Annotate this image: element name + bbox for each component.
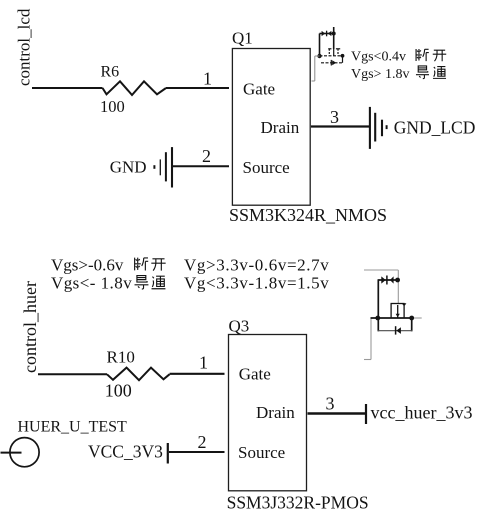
svg-text:R10: R10 bbox=[107, 348, 135, 367]
transistor Q3 body bbox=[229, 335, 307, 491]
power GND_LCD battery symbol bbox=[370, 107, 387, 149]
svg-text:2: 2 bbox=[202, 146, 211, 166]
wire bbox=[169, 451, 225, 453]
wire bbox=[170, 373, 225, 375]
svg-text:Q3: Q3 bbox=[229, 317, 250, 336]
wire bbox=[38, 373, 107, 375]
svg-text:1: 1 bbox=[199, 353, 208, 373]
transistor Q1 body bbox=[232, 49, 310, 206]
wire bbox=[32, 87, 103, 89]
svg-text:HUER_U_TEST: HUER_U_TEST bbox=[18, 419, 128, 436]
wire bbox=[308, 412, 366, 414]
wire bbox=[166, 87, 229, 89]
svg-text:Vg>3.3v-0.6v=2.7v: Vg>3.3v-0.6v=2.7v bbox=[184, 255, 329, 274]
svg-text:control_lcd: control_lcd bbox=[15, 8, 34, 86]
wire bbox=[1, 452, 22, 454]
svg-text:Drain: Drain bbox=[256, 403, 295, 422]
svg-text:Vgs>-0.6v: Vgs>-0.6v bbox=[51, 255, 124, 274]
annotation 断开 bbox=[135, 258, 149, 271]
svg-text:Drain: Drain bbox=[261, 118, 300, 137]
wire bbox=[311, 125, 369, 127]
svg-text:GND_LCD: GND_LCD bbox=[394, 118, 476, 138]
svg-text:Source: Source bbox=[243, 158, 290, 177]
annotation 导通 bbox=[135, 276, 149, 289]
svg-text:3: 3 bbox=[326, 394, 335, 414]
svg-text:100: 100 bbox=[100, 97, 125, 116]
svg-text:2: 2 bbox=[198, 432, 207, 452]
ground GND battery symbol bbox=[154, 147, 172, 187]
svg-text:R6: R6 bbox=[101, 63, 120, 80]
svg-text:Source: Source bbox=[238, 443, 285, 462]
svg-text:SSM3J332R-PMOS: SSM3J332R-PMOS bbox=[227, 493, 369, 513]
svg-text:Gate: Gate bbox=[243, 79, 275, 98]
svg-text:vcc_huer_3v3: vcc_huer_3v3 bbox=[371, 403, 473, 423]
svg-text:Vgs> 1.8v: Vgs> 1.8v bbox=[351, 67, 409, 82]
annotation 断开 bbox=[416, 49, 429, 61]
test point circle bbox=[10, 438, 39, 467]
transistor small NMOS symbol with body diode bbox=[312, 27, 345, 81]
svg-text:Q1: Q1 bbox=[232, 29, 253, 48]
svg-text:3: 3 bbox=[330, 107, 339, 127]
svg-text:1: 1 bbox=[203, 69, 212, 89]
svg-text:SSM3K324R_NMOS: SSM3K324R_NMOS bbox=[229, 205, 387, 225]
svg-text:Gate: Gate bbox=[239, 365, 271, 384]
svg-text:Vg<3.3v-1.8v=1.5v: Vg<3.3v-1.8v=1.5v bbox=[184, 273, 329, 292]
annotation 导通 bbox=[416, 66, 429, 79]
resistor R10 bbox=[107, 368, 170, 381]
resistor R6 bbox=[103, 81, 167, 95]
svg-text:Vgs<- 1.8v: Vgs<- 1.8v bbox=[51, 273, 132, 292]
svg-text:VCC_3V3: VCC_3V3 bbox=[88, 441, 163, 461]
svg-text:Vgs<0.4v: Vgs<0.4v bbox=[351, 50, 406, 65]
power vcc_huer_3v3 bar symbol bbox=[365, 404, 367, 424]
wire bbox=[173, 165, 229, 167]
svg-text:GND: GND bbox=[110, 157, 147, 176]
svg-text:control_huer: control_huer bbox=[20, 281, 40, 373]
svg-text:100: 100 bbox=[105, 381, 132, 401]
transistor small PMOS symbol with body diode bbox=[364, 270, 422, 360]
